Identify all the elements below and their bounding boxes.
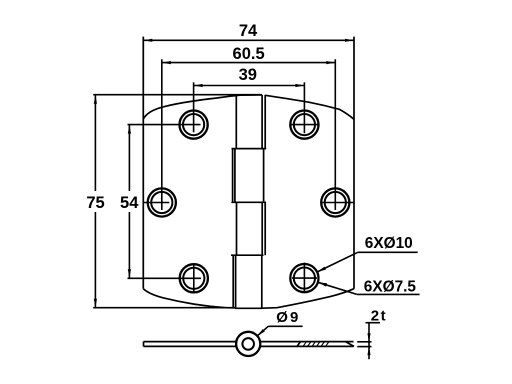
hole mid-right inner circle bbox=[325, 192, 346, 213]
2t leader horizontal bbox=[366, 322, 381, 324]
dimension line 54 upper part bbox=[128, 125, 130, 191]
leader D9 arrow bbox=[257, 329, 265, 336]
side view left leaf bar bottom line bbox=[144, 345, 238, 347]
extension line 39 right through top-right hole bbox=[303, 82, 305, 133]
knuckle bottom line bbox=[235, 307, 262, 309]
plate top edge center line + 75 top extension bbox=[93, 94, 262, 96]
knuckle segment 2 left double line a bbox=[232, 149, 234, 203]
centerline bottom-right hole horizontal bbox=[292, 277, 317, 279]
svg-text:60.5: 60.5 bbox=[233, 45, 265, 63]
dimension line 39 bbox=[194, 85, 305, 87]
side view left bar end cap bbox=[143, 342, 145, 347]
hole bottom-left inner circle bbox=[183, 268, 204, 289]
centerline mid-left hole horizontal bbox=[143, 202, 169, 204]
side view left leaf bar top line bbox=[144, 341, 238, 343]
side view hatch boundary left bbox=[297, 342, 301, 347]
knuckle segment 3 right line bbox=[261, 202, 263, 255]
knuckle segment 2 left double line b bbox=[234, 149, 236, 203]
2t arrow down bbox=[367, 333, 370, 342]
extension line 54 bottom through bottom-left hole bbox=[128, 277, 202, 279]
svg-text:6XØ7.5: 6XØ7.5 bbox=[364, 279, 417, 296]
side view bar right end taper bbox=[346, 342, 355, 347]
centerline bottom-left hole vertical bbox=[193, 264, 195, 293]
centerline bottom-right hole vertical bbox=[303, 263, 305, 292]
arrow 75 bottom bbox=[94, 299, 97, 308]
knuckle segment 4 left double line b bbox=[235, 255, 237, 308]
side view barrel outer circle bbox=[236, 332, 260, 356]
dimension line 60.5 bbox=[162, 62, 335, 64]
arrow 74 left bbox=[143, 39, 152, 42]
extension line 39 left through top-left hole bbox=[193, 82, 195, 132]
plate left edge + 74 extension line bbox=[142, 37, 144, 289]
svg-text:74: 74 bbox=[239, 22, 258, 40]
centerline top-right hole horizontal bbox=[290, 124, 319, 126]
plate bottom extension line for 75 bbox=[93, 307, 236, 309]
arrow 54 top bbox=[128, 125, 131, 134]
arrow 54 bottom bbox=[128, 269, 131, 278]
dimension line 75 lower part bbox=[94, 212, 96, 308]
dimension line 74 bbox=[143, 39, 354, 41]
hole mid-right outer circle bbox=[321, 188, 349, 216]
svg-text:6XØ10: 6XØ10 bbox=[365, 235, 413, 252]
side view right leaf bar top line bbox=[260, 341, 354, 343]
arrow 60.5 left bbox=[162, 61, 171, 64]
leader D9 line bbox=[257, 326, 268, 336]
knuckle segment 2 right line bbox=[263, 149, 265, 203]
plate bottom-right corner sweep bbox=[262, 289, 354, 309]
leader 6X D7.5 shelf bbox=[357, 293, 420, 295]
arrow 75 top bbox=[94, 95, 97, 104]
hole bottom-right outer circle bbox=[290, 264, 318, 292]
leader 6X D7.5 arrow bbox=[318, 282, 327, 286]
svg-text:75: 75 bbox=[86, 194, 104, 212]
centerline mid-right hole horizontal bbox=[321, 202, 355, 204]
knuckle segment 4 right line bbox=[261, 255, 263, 308]
arrow 74 right bbox=[345, 39, 354, 42]
2t extension line top bbox=[357, 341, 371, 343]
leader D9 shelf bbox=[268, 325, 302, 327]
hole bottom-right inner circle bbox=[294, 268, 315, 289]
leader 6X D7.5 line bbox=[318, 282, 357, 294]
knuckle joint line lower bbox=[264, 202, 266, 255]
arrow 39 right bbox=[295, 84, 304, 87]
knuckle cut 2 bbox=[231, 201, 266, 203]
2t extension line bottom bbox=[357, 346, 371, 348]
dimension line 75 upper part bbox=[94, 95, 96, 191]
extension line 54 top through top-left hole bbox=[128, 124, 201, 126]
svg-text:39: 39 bbox=[239, 66, 257, 84]
plate top-left corner sweep bbox=[143, 95, 262, 119]
dimension line 54 lower part bbox=[128, 212, 130, 278]
side view right leaf bar bottom line bbox=[260, 345, 354, 347]
leader 6X D10 arrow bbox=[317, 267, 326, 272]
svg-text:Ø9: Ø9 bbox=[276, 309, 300, 326]
2t arrow up bbox=[367, 347, 370, 356]
extension line 60.5 right through mid-right hole bbox=[334, 59, 336, 210]
hole top-right outer circle bbox=[290, 111, 318, 139]
knuckle segment 4 left double line a bbox=[232, 255, 234, 308]
knuckle segment 3 left line bbox=[236, 202, 238, 255]
arrow 60.5 right bbox=[326, 61, 335, 64]
plate bottom-left leaf edge bbox=[143, 289, 236, 308]
arrow 39 left bbox=[194, 84, 203, 87]
side view hatch lines bbox=[303, 342, 329, 347]
plate top-right leaf edge bbox=[265, 95, 354, 119]
hole top-right inner circle bbox=[294, 114, 315, 135]
leader 6X D10 shelf bbox=[358, 251, 418, 253]
hole mid-left outer circle bbox=[148, 188, 176, 216]
extension line 60.5 left through mid-left hole bbox=[161, 59, 163, 210]
knuckle segment 1 left line bbox=[235, 95, 237, 149]
svg-text:2t: 2t bbox=[371, 307, 387, 324]
knuckle cut 3 bbox=[231, 254, 264, 256]
leader 6X D10 line bbox=[317, 252, 358, 272]
2t dimension vertical line bbox=[368, 323, 370, 360]
svg-text:54: 54 bbox=[120, 194, 139, 212]
hole top-left outer circle bbox=[180, 111, 208, 139]
plate right edge + 74 extension line bbox=[353, 37, 355, 289]
knuckle cut 1 bbox=[232, 148, 267, 150]
hole mid-left inner circle bbox=[151, 192, 172, 213]
hole bottom-left outer circle bbox=[180, 264, 208, 292]
hole top-left inner circle bbox=[183, 114, 204, 135]
knuckle joint line upper bbox=[264, 95, 266, 149]
knuckle segment 1 right line bbox=[261, 95, 263, 149]
side view barrel pin hole bbox=[242, 338, 254, 350]
